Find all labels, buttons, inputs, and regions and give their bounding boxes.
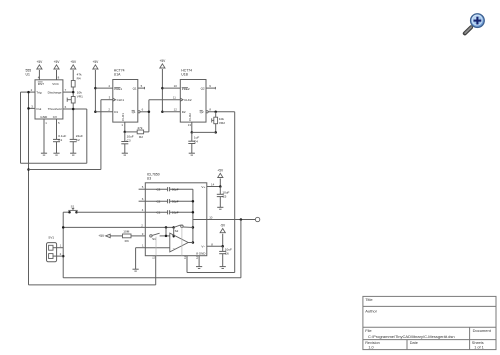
svg-text:12: 12: [195, 256, 199, 259]
svg-text:C2: C2: [76, 138, 80, 142]
svg-text:Author: Author: [365, 308, 377, 313]
svg-text:Title: Title: [365, 297, 373, 302]
svg-text:C3: C3: [157, 188, 161, 192]
svg-text:+5V: +5V: [70, 60, 77, 64]
svg-text:U1B: U1B: [181, 73, 188, 77]
svg-text:C3: C3: [127, 139, 131, 143]
svg-text:1 of 1: 1 of 1: [474, 346, 484, 350]
svg-text:-5V: -5V: [220, 224, 226, 228]
svg-text:Revision: Revision: [365, 341, 380, 345]
svg-text:PRE1: PRE1: [114, 87, 122, 91]
svg-text:PRE2: PRE2: [182, 87, 190, 91]
svg-text:11: 11: [173, 96, 176, 100]
svg-text:V+: V+: [201, 185, 205, 189]
svg-text:+5V: +5V: [37, 60, 44, 64]
svg-text:CLR2: CLR2: [188, 113, 192, 121]
svg-text:13: 13: [183, 256, 187, 259]
svg-text:13: 13: [188, 123, 192, 127]
svg-text:C4: C4: [194, 139, 198, 143]
svg-text:C1: C1: [58, 138, 62, 142]
svg-text:C6: C6: [225, 252, 229, 256]
svg-text:VR1: VR1: [77, 95, 83, 99]
svg-text:CLK1: CLK1: [117, 98, 125, 102]
svg-text:Sheets: Sheets: [472, 341, 484, 345]
svg-text:11: 11: [152, 256, 156, 259]
svg-text:Q1: Q1: [133, 86, 137, 90]
svg-text:Q2: Q2: [200, 110, 204, 114]
svg-text:10: 10: [174, 84, 178, 88]
svg-text:U1A: U1A: [114, 73, 121, 77]
svg-text:1.0: 1.0: [368, 346, 373, 350]
svg-text:−: −: [173, 247, 175, 251]
svg-text:Date: Date: [410, 341, 418, 345]
svg-text:Q2: Q2: [201, 86, 205, 90]
svg-text:Q1: Q1: [132, 110, 136, 114]
svg-text:File: File: [365, 328, 372, 333]
svg-text:+: +: [173, 236, 175, 240]
svg-text:U3: U3: [147, 176, 151, 180]
svg-text:S2: S2: [175, 229, 179, 233]
svg-text:Discharge: Discharge: [48, 90, 62, 94]
svg-text:Trig: Trig: [36, 90, 41, 94]
svg-text:RST: RST: [38, 82, 44, 86]
svg-text:10: 10: [209, 215, 213, 219]
svg-text:8 GND: 8 GND: [196, 252, 206, 256]
svg-text:CLK2: CLK2: [184, 98, 192, 102]
svg-text:Threshold: Threshold: [48, 107, 62, 111]
svg-text:S1: S1: [71, 204, 75, 208]
svg-text:30pF: 30pF: [172, 200, 179, 204]
svg-text:C5: C5: [222, 194, 226, 198]
svg-text:10M: 10M: [123, 230, 129, 234]
svg-text:U1: U1: [26, 73, 30, 77]
svg-text:VR2: VR2: [219, 121, 225, 125]
svg-text:R3: R3: [125, 239, 129, 243]
svg-text:Out: Out: [36, 107, 41, 111]
svg-text:12: 12: [174, 108, 178, 112]
svg-text:CLR1: CLR1: [121, 113, 125, 121]
svg-text:R2: R2: [139, 135, 143, 139]
svg-text:10pF: 10pF: [172, 211, 179, 215]
svg-text:+5V: +5V: [54, 60, 61, 64]
svg-text:VCC: VCC: [52, 82, 59, 86]
svg-text:C1: C1: [157, 211, 161, 215]
svg-text:+5V: +5V: [160, 59, 167, 63]
svg-text:R4: R4: [77, 77, 81, 81]
svg-text:D1: D1: [114, 110, 118, 114]
svg-text:+5V: +5V: [98, 234, 105, 238]
svg-text:C:\Programme\TinyCAD\library\C: C:\Programme\TinyCAD\library\C-Messgerät…: [368, 334, 455, 339]
svg-text:GND: GND: [40, 115, 48, 119]
svg-text:SV1: SV1: [48, 236, 54, 240]
svg-text:D2: D2: [182, 110, 186, 114]
svg-text:80pF: 80pF: [172, 188, 179, 192]
svg-text:S1: S1: [152, 237, 156, 241]
svg-text:47k: 47k: [137, 126, 142, 130]
svg-text:C2: C2: [157, 200, 161, 204]
svg-text:V−: V−: [201, 244, 205, 248]
svg-text:+5V: +5V: [93, 60, 100, 64]
svg-text:+5V: +5V: [217, 169, 224, 173]
svg-text:Document: Document: [473, 328, 492, 333]
